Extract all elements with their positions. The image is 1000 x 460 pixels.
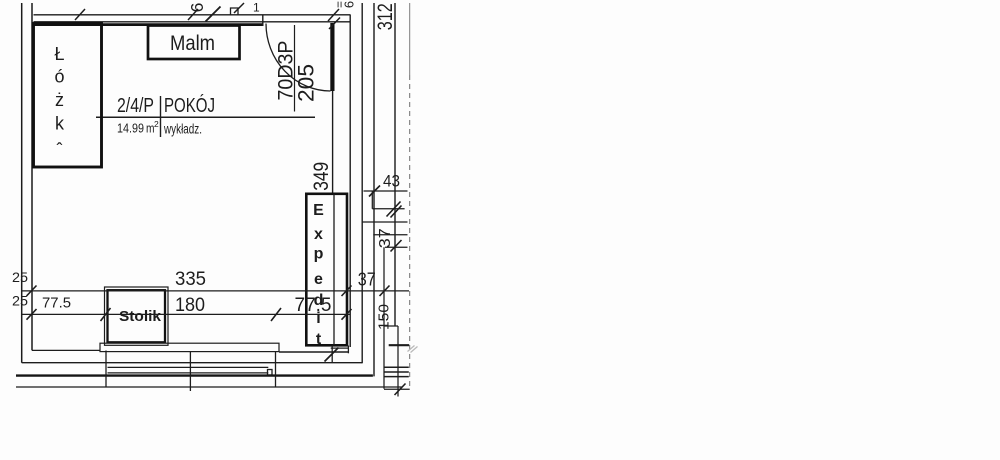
svg-text:ˆ: ˆ xyxy=(57,140,63,160)
right cascade line y=234.8 xyxy=(373,234,407,236)
bottom wall line y=386.7 xyxy=(16,386,402,388)
tick line B at x=276 xyxy=(271,308,281,321)
svg-text:6: 6 xyxy=(187,3,207,13)
short wall mark h y=344.3 right xyxy=(389,344,410,346)
bottom inner wall stub left xyxy=(32,349,101,351)
svg-text:25: 25 xyxy=(12,269,28,285)
svg-text:43: 43 xyxy=(383,172,400,191)
Expedit label letters xyxy=(313,202,324,348)
top notch slash xyxy=(234,3,244,13)
svg-text:150: 150 xyxy=(376,304,393,330)
short wall marks x 387-402 xyxy=(384,366,409,368)
window jamb v x=106 xyxy=(105,351,107,388)
svg-text:205: 205 xyxy=(294,64,319,102)
top right double tick lower xyxy=(329,18,340,30)
short wall marks x 413-426 xyxy=(408,346,415,352)
svg-text:335: 335 xyxy=(175,269,206,290)
svg-text:wykładz.: wykładz. xyxy=(163,122,202,137)
svg-text:349: 349 xyxy=(310,162,333,191)
Stolik table inner rect xyxy=(108,290,166,342)
door jamb xyxy=(262,15,264,26)
header rule xyxy=(96,116,315,118)
Malm box xyxy=(148,26,240,60)
bottom wall thick line y=375.3 xyxy=(16,374,373,376)
faint boundary line v x=409.7 lower dashed xyxy=(409,75,411,390)
right cascade line y=222 xyxy=(362,221,408,223)
left wall inner line xyxy=(31,3,33,350)
left wall outer line xyxy=(21,3,23,363)
svg-text:2/4/P: 2/4/P xyxy=(117,95,154,117)
tick line A at x=384.5 xyxy=(380,286,390,297)
extension line v x=374 xyxy=(373,3,375,376)
Expedit inner divider xyxy=(333,194,335,345)
top notch xyxy=(231,8,239,15)
window line y=367.4 xyxy=(108,366,269,368)
svg-text:77.5: 77.5 xyxy=(42,295,71,312)
svg-text:POKÓJ: POKÓJ xyxy=(164,94,215,117)
top wall inner thick line xyxy=(34,23,264,26)
svg-text:312: 312 xyxy=(374,3,397,30)
svg-text:Ł: Ł xyxy=(54,44,64,64)
short h y=348.1 under Expedit xyxy=(331,347,349,349)
svg-text:x: x xyxy=(314,226,323,243)
right wall line segment below Expedit xyxy=(331,346,333,363)
right cascade v x=385 down xyxy=(383,247,385,388)
bed Lozko box xyxy=(34,24,102,168)
connector v at Expedit right bottom xyxy=(347,346,349,354)
top right double tick upper xyxy=(328,9,339,21)
svg-text:1: 1 xyxy=(253,1,260,15)
Stolik table outer rect xyxy=(105,287,169,345)
bed label Lozko (vertical letters) xyxy=(54,44,65,160)
window end block xyxy=(268,370,273,376)
header divider xyxy=(160,96,162,137)
right wall inner line below door xyxy=(332,91,334,195)
right wall outer line xyxy=(349,15,351,347)
top big tick at x=213 xyxy=(206,7,221,22)
bottom inner wall right of shelf xyxy=(279,351,349,353)
double tick at (394,208.8) xyxy=(387,202,401,217)
big tick at 349-dim bottom end xyxy=(325,348,339,362)
svg-text:k: k xyxy=(55,114,65,134)
svg-text:2: 2 xyxy=(154,119,159,129)
tick line B at x=31.5 xyxy=(27,309,37,320)
svg-text:ó: ó xyxy=(54,67,64,87)
right cascade line y=191 xyxy=(364,190,408,192)
svg-text:e: e xyxy=(314,271,323,288)
right cascade line y=247.3 xyxy=(385,246,408,248)
bottom right dim line y=389.3 xyxy=(384,388,410,390)
tick on y=191 at x=374.5 xyxy=(369,186,380,197)
top tick at x=80 xyxy=(75,9,85,20)
bottom wall line y=362.7 xyxy=(22,362,363,364)
right cascade line y=208.8 xyxy=(372,208,404,210)
svg-text:14.99: 14.99 xyxy=(117,121,144,136)
faint boundary line v x=409.7 upper xyxy=(409,3,411,75)
dimension line B (77.5/180/77.5) xyxy=(22,313,350,315)
extension line v x=395 xyxy=(394,3,396,326)
tick line A at x=346.5 xyxy=(342,286,352,297)
window jamb v x=275.5 xyxy=(275,352,277,387)
tick at (400,389.3) xyxy=(395,384,406,396)
svg-text:77.5: 77.5 xyxy=(295,294,332,316)
Expedit shelving box xyxy=(306,194,347,345)
window mullion v x=190.4 xyxy=(189,352,191,391)
right cascade v x=372.3 xyxy=(371,191,373,209)
svg-text:37: 37 xyxy=(358,270,376,290)
top tick at x=193 xyxy=(188,9,198,20)
door label separator line xyxy=(294,25,296,112)
door leaf (thick bar on right wall) xyxy=(330,23,334,91)
dimension line A (335 overall) xyxy=(22,290,409,292)
tick line A at x=31.5 xyxy=(27,286,37,297)
svg-text:p: p xyxy=(314,246,324,263)
svg-text:E: E xyxy=(313,202,324,219)
top wall outer line xyxy=(34,21,351,23)
tick at (396.5,246) xyxy=(391,240,402,252)
top dimension line xyxy=(34,14,351,16)
tick line B at x=346.5 xyxy=(342,309,352,320)
tick line B at x=105.5 xyxy=(101,308,111,321)
shelf under window xyxy=(100,343,279,351)
right bracket h y=326 xyxy=(385,325,399,327)
svg-text:6: 6 xyxy=(342,1,357,8)
extension line v x=362 xyxy=(361,3,363,363)
svg-text:37: 37 xyxy=(377,228,394,248)
right bracket v x=398 xyxy=(397,326,399,397)
window line y=372.9 xyxy=(108,372,269,374)
svg-text:25: 25 xyxy=(12,293,28,309)
svg-text:ż: ż xyxy=(55,90,64,110)
svg-text:t: t xyxy=(316,331,322,348)
svg-text:Malm: Malm xyxy=(170,32,215,55)
door swing arc xyxy=(266,24,331,92)
svg-text:Stolik: Stolik xyxy=(119,308,162,325)
svg-text:180: 180 xyxy=(175,295,205,316)
